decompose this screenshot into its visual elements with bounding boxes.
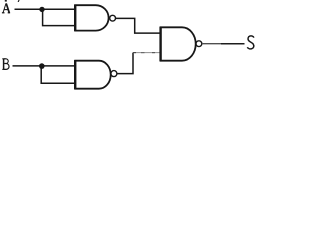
darker specks on faint wire (133, 52, 136, 54)
NAND gate U1 (75, 5, 115, 32)
faint wire segment into U3 lower input (133, 52, 160, 54)
wire A input (15, 8, 76, 10)
wire B junction to U2 lower input (41, 66, 75, 83)
wire U1 output to U3 upper input (116, 18, 160, 33)
node A (2, 3, 10, 12)
junction dot on A (39, 7, 44, 12)
junction dot on B (39, 63, 45, 69)
artifacts at cropped top edge (no label) (5, 0, 7, 2)
wire A junction to U1 lower input (43, 9, 76, 25)
wire B input (13, 65, 76, 67)
node S (247, 36, 254, 49)
NAND gate U2 (75, 60, 117, 89)
wire U3 output to S (202, 43, 222, 45)
NAND gate U3 (161, 27, 202, 62)
node B (2, 59, 9, 70)
wire U2 output up to U3 lower input (117, 53, 133, 74)
